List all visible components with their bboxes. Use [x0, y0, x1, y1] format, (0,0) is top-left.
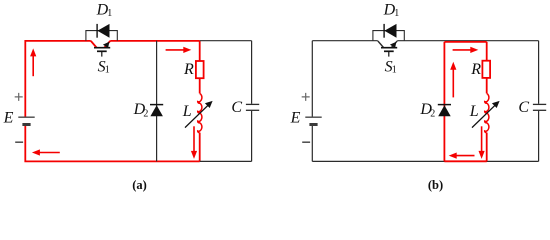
svg-text:E: E — [290, 110, 301, 127]
svg-text:1: 1 — [392, 65, 397, 76]
svg-text:L: L — [182, 103, 192, 120]
svg-text:C: C — [518, 99, 529, 116]
svg-text:R: R — [470, 61, 481, 78]
svg-text:(b): (b) — [428, 178, 443, 192]
svg-text:1: 1 — [105, 65, 110, 76]
svg-text:E: E — [3, 110, 14, 127]
svg-text:2: 2 — [143, 109, 148, 120]
svg-text:(a): (a) — [132, 178, 147, 192]
svg-text:R: R — [183, 61, 194, 78]
svg-text:1: 1 — [394, 8, 399, 19]
svg-text:C: C — [231, 99, 242, 116]
svg-text:1: 1 — [107, 8, 112, 19]
svg-text:L: L — [469, 103, 479, 120]
svg-text:2: 2 — [430, 109, 435, 120]
